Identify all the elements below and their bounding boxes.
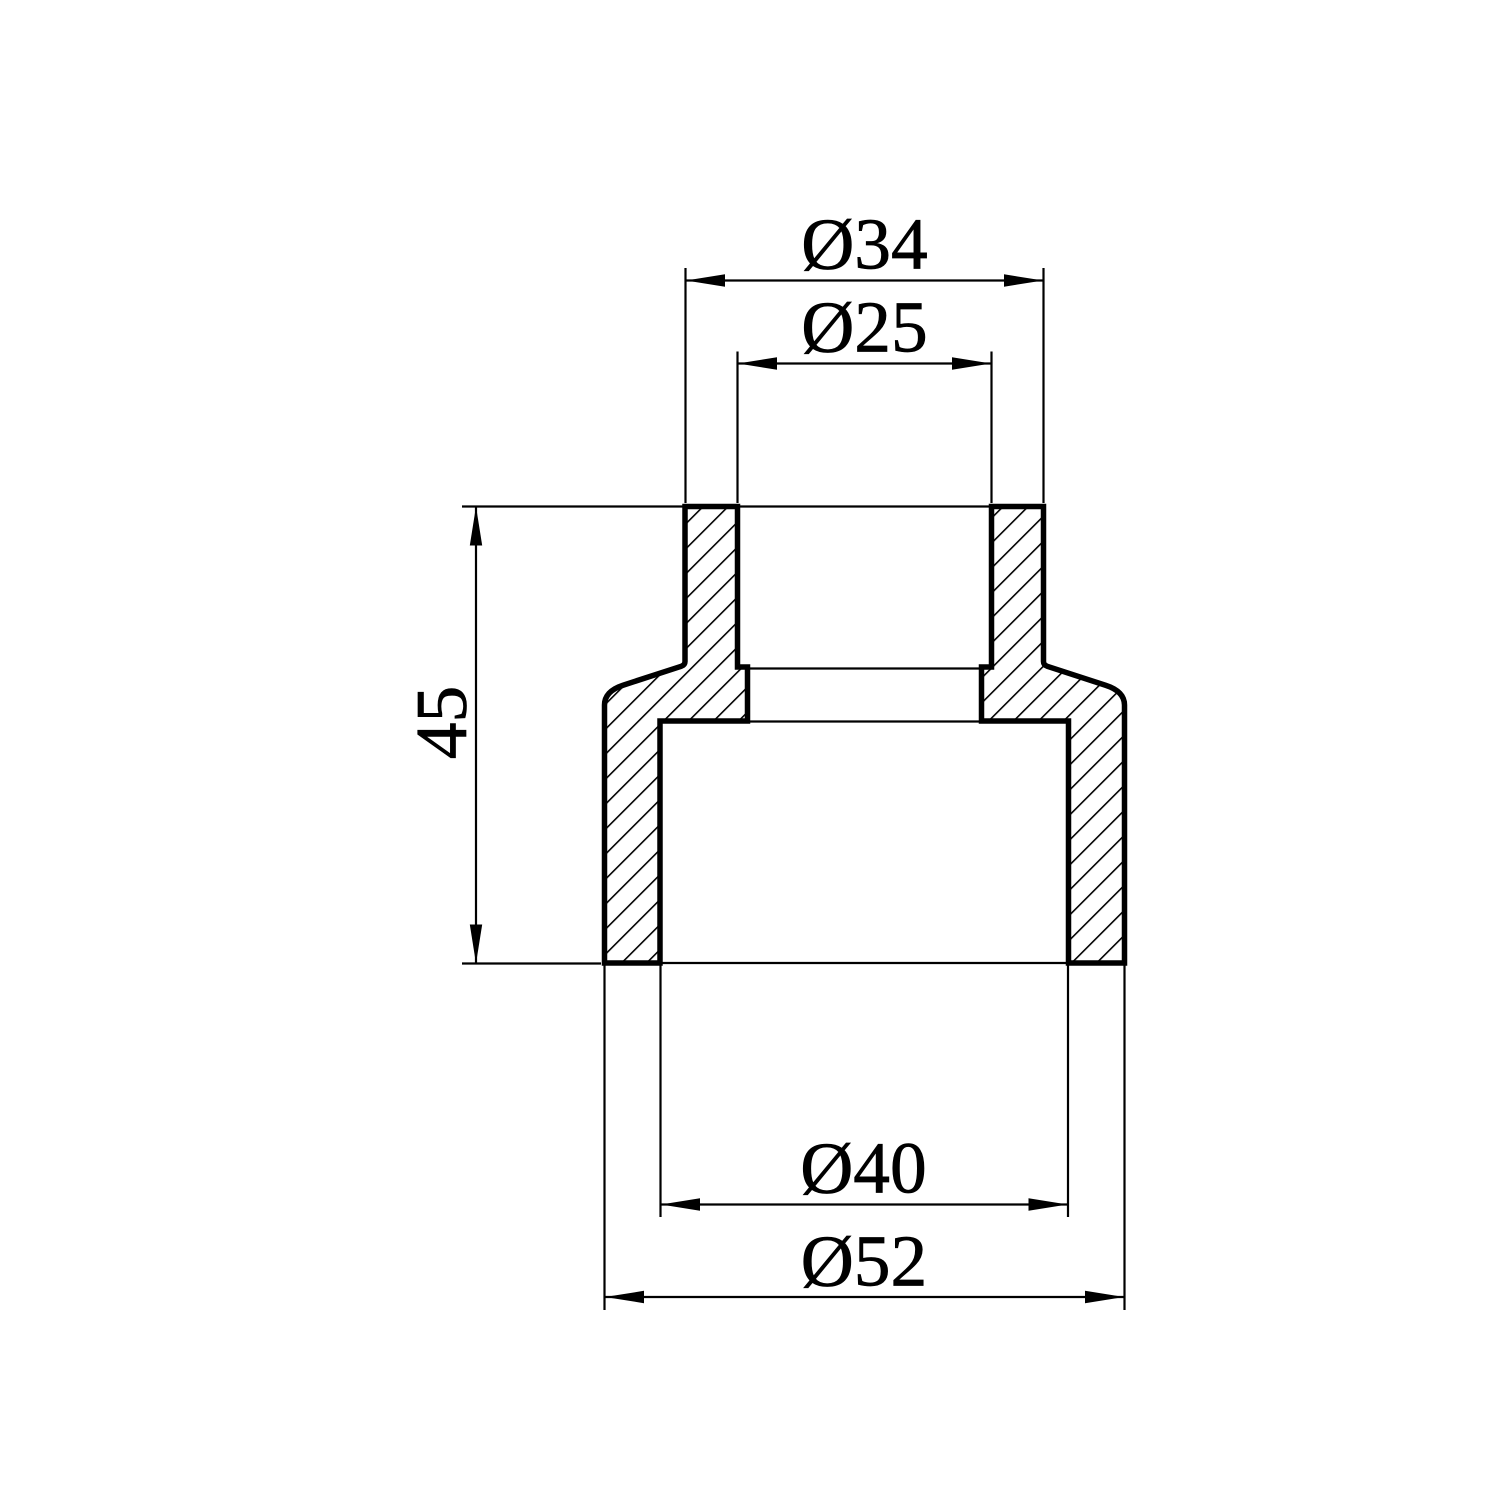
svg-text:Ø52: Ø52 bbox=[801, 1221, 928, 1302]
wire: right wall section of reducer coupling (hatched) bbox=[982, 507, 1125, 964]
svg-text:Ø34: Ø34 bbox=[801, 204, 928, 285]
wire: extension line Ø40 right bbox=[1067, 965, 1069, 1217]
wire: extension line Ø34 left bbox=[684, 268, 686, 503]
wire: top bore opening edge bbox=[738, 505, 992, 507]
wire: extension line Ø34 right bbox=[1042, 268, 1044, 503]
wire: dimension line Ø34 bbox=[686, 279, 1043, 281]
wire: dimension line Ø25 bbox=[738, 362, 991, 364]
svg-text:Ø40: Ø40 bbox=[800, 1128, 927, 1209]
wire: left wall section of reducer coupling (hatched) bbox=[605, 507, 748, 964]
svg-text:45: 45 bbox=[401, 686, 482, 760]
wire: extension line 45 top bbox=[462, 505, 683, 507]
wire: extension line 45 bottom bbox=[462, 962, 601, 964]
wire: bottom bore opening edge bbox=[660, 962, 1069, 964]
wire: extension line Ø25 right bbox=[990, 352, 992, 504]
wire: lower socket shoulder edge bbox=[748, 720, 982, 722]
wire: dimension line 45 bbox=[475, 507, 477, 963]
wire: extension line Ø25 left bbox=[736, 352, 738, 504]
wire: upper socket shoulder edge bbox=[748, 667, 982, 669]
wire: extension line Ø52 left bbox=[603, 965, 605, 1310]
wire: extension line Ø40 left bbox=[659, 965, 661, 1217]
wire: extension line Ø52 right bbox=[1123, 965, 1125, 1310]
svg-text:Ø25: Ø25 bbox=[801, 287, 928, 368]
wire: dimension line Ø40 bbox=[661, 1203, 1068, 1205]
wire: dimension line Ø52 bbox=[605, 1296, 1124, 1298]
